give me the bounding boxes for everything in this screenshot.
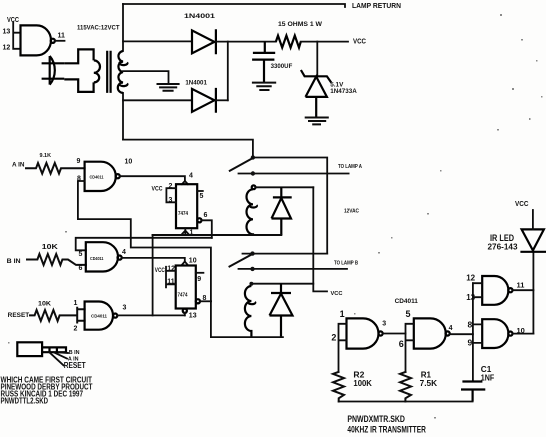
wire FG input bracket vertical [472,283,474,381]
svg-text:VCC: VCC [515,201,529,208]
relay K2 coil [245,286,255,337]
svg-text:7474: 7474 [178,293,188,299]
diode D2 1N4001 [192,88,216,113]
bubble U1A output [116,174,120,178]
svg-text:7.5K: 7.5K [420,378,438,388]
wire U1C output reset line [117,314,184,316]
wire center tap [123,71,169,84]
svg-text:CD4011: CD4011 [90,174,104,179]
svg-text:3: 3 [123,305,127,312]
svg-text:CD4011: CD4011 [91,314,107,319]
bubble U5B output [446,331,450,335]
svg-text:100K: 100K [353,378,372,388]
junction lamp A contact [251,171,255,175]
svg-text:40KHZ IR TRANSMITTER: 40KHZ IR TRANSMITTER [347,425,426,436]
bubble U4 pin8 [196,299,200,303]
led D6 IR LED 276-143 [520,229,546,251]
svg-text:A IN: A IN [12,162,25,169]
svg-text:5: 5 [79,251,83,258]
bubble U2D output [51,39,55,43]
svg-text:10: 10 [189,257,197,264]
svg-text:B IN: B IN [7,258,22,265]
wire U5A out to U5B in [383,333,406,335]
svg-text:12VAC: 12VAC [344,209,359,215]
ground center tap [158,84,179,91]
nand gate U5A [347,318,379,348]
svg-text:4: 4 [189,173,193,180]
wire U3 VCC bracket pins 2,3 [166,188,176,202]
transformer T1 core [107,51,110,93]
wire to lamp B [239,268,348,270]
bubble U1B output [118,256,122,260]
svg-text:10K: 10K [38,300,51,307]
svg-text:5: 5 [200,193,204,200]
nand gate U1B [86,242,118,271]
ic U3 7474 A [176,184,197,228]
pin 4 caret U3 [182,181,188,184]
wire lamp return top line [123,4,345,7]
svg-text:8: 8 [468,320,473,330]
svg-text:10: 10 [125,159,133,166]
diode D4 flyback relay A [272,187,292,235]
wire VCC rail vertical [312,187,314,283]
bubble U5D output [508,332,512,336]
svg-text:6: 6 [204,212,208,219]
junction relay A pole [251,155,255,159]
resistor R4 9.1K [26,163,85,174]
wire LED chain vertical [532,252,534,334]
svg-text:VCC: VCC [331,291,344,297]
svg-text:6: 6 [399,339,404,349]
bubble U3 pin6 [197,218,201,222]
connector J1 body [17,342,42,356]
svg-text:4: 4 [122,249,126,256]
bubble U1C output [113,314,117,318]
pin 1 caret U3 [182,231,188,234]
wire U1B output to U4 pin10 [122,258,185,262]
relay K1 coil [247,189,257,235]
switch K2 blade [230,254,253,267]
nand gate U2D [21,25,52,55]
wire U5C input stubs 12,13 [473,283,482,297]
svg-text:VCC: VCC [152,186,164,192]
nand gate U1C [85,302,113,330]
leader line A IN [54,352,67,358]
wire U1A pin8 feedback [78,181,211,337]
diode D5 flyback relay B [270,284,293,337]
svg-text:LAMP RETURN: LAMP RETURN [352,3,401,10]
wire rectifier junction vertical [227,42,229,101]
wire xmtr bottom rail [339,401,473,403]
resistor R5 10K [27,254,86,265]
svg-text:VCC: VCC [353,38,366,45]
svg-text:RESET: RESET [64,361,86,370]
wire U2D output stub [55,40,65,42]
svg-text:12: 12 [3,45,11,52]
wire secondary left vertical [122,4,124,51]
wire 12VAC to relay A pole [123,140,253,158]
wire U5D output [513,333,534,335]
svg-text:1: 1 [190,230,194,237]
svg-text:15 OHMS 1 W: 15 OHMS 1 W [278,22,322,28]
AC plug P1 [42,56,65,85]
svg-text:CD4011: CD4011 [395,299,419,305]
wire secondary bottom to relay common [122,93,124,140]
wire U1C input bracket [77,308,84,323]
svg-text:115VAC:12VCT: 115VAC:12VCT [77,25,120,32]
wire resistor to VCC [301,41,348,43]
svg-text:11: 11 [517,281,525,290]
wire U5C output [513,289,534,291]
svg-text:13: 13 [3,29,11,36]
capacitor C2 3300UF [252,42,275,83]
wire relay B top [251,284,327,292]
junction relay B pole [250,251,254,255]
relay K1 coil terminal circle [252,185,256,189]
nand gate U1A [85,162,116,191]
wire U5B out to FG bracket [450,333,473,335]
svg-text:2: 2 [331,333,336,343]
pin 10 caret U4 [182,262,188,266]
wire U5B input bracket to R1 [406,324,414,372]
svg-text:276-143: 276-143 [488,241,518,251]
wire reset branch up [152,235,154,315]
wire U4 pin9 stub [196,272,204,274]
ground C2 [253,83,275,90]
svg-text:4: 4 [449,325,453,332]
transformer T1 primary coil [94,60,100,82]
svg-text:9: 9 [197,276,201,283]
wire D1 cathode to regulator [216,41,276,43]
svg-text:11: 11 [58,33,66,40]
svg-text:1: 1 [74,300,78,307]
svg-text:7474: 7474 [178,211,188,217]
wire U4 VCC bracket pins 12,11 [166,267,176,288]
wire U3 pin5 stub [197,190,203,192]
bubble U4 pin13 [183,309,187,313]
svg-text:13: 13 [466,293,475,302]
svg-text:CD4011: CD4011 [90,256,104,261]
leader line B IN [59,351,68,354]
nand gate U5D [482,319,508,348]
svg-text:1N4001: 1N4001 [185,80,207,86]
svg-text:1: 1 [340,309,345,319]
svg-text:12: 12 [167,265,175,272]
svg-text:3: 3 [382,320,386,327]
junction lamp B contact [250,267,254,271]
bubble U5A output [379,331,383,335]
resistor R1 [400,372,411,402]
ic U4 7474 B [176,266,196,309]
wire VCC to gate U2D inputs [13,23,20,49]
svg-text:3300UF: 3300UF [271,64,293,70]
switch K1 blade [230,158,253,171]
svg-text:1NF: 1NF [481,372,495,382]
wire relay A NC line [253,158,327,254]
svg-text:1N4733A: 1N4733A [330,88,357,95]
connector J1 tip [42,347,66,352]
svg-text:9: 9 [468,338,473,348]
wire relay B bottom [211,336,283,338]
wire U4 pin13 to reset line [184,313,186,315]
wire relay B pole line [243,253,328,255]
svg-text:PNWDXMTR.SKD: PNWDXMTR.SKD [347,414,405,425]
wire to lamp A [239,173,349,175]
wire U4 pin8 to vertical [200,300,211,302]
svg-text:VCC: VCC [155,268,166,274]
ground zener [306,118,328,125]
wire relay A top to VCC rail [256,186,314,188]
wire zener branch [316,42,318,77]
junction relay B top [249,282,253,286]
svg-text:13: 13 [189,313,197,320]
resistor R3 15 OHMS 1 W [276,36,301,48]
wire U3 pin6 to gate B pin5 line [202,220,212,238]
svg-text:RESET: RESET [8,312,30,319]
svg-text:B IN: B IN [69,350,80,356]
zener D3 5.1V 1N4733A [301,70,331,118]
wire U5A input bracket to R2 [339,324,347,372]
capacitor C1 [461,382,485,402]
svg-text:2: 2 [74,325,78,332]
svg-text:12: 12 [466,274,475,283]
svg-text:9: 9 [77,158,81,165]
wire U3 pin1 stub [184,228,186,235]
wire bottom tap to diode [123,99,192,101]
leader line RESET [50,352,64,365]
wire U5D input stubs 8,9 [473,324,482,343]
nand gate U5B [414,318,446,348]
svg-text:6: 6 [79,265,83,272]
diode D1 1N4001 [192,29,216,54]
resistor R2 [333,372,344,402]
svg-text:TO LAMP B: TO LAMP B [334,260,358,266]
wire top tap to diode [123,40,192,42]
svg-text:1N4001: 1N4001 [184,14,216,20]
svg-text:TO LAMP A: TO LAMP A [338,164,363,170]
nand gate U5C [482,276,508,305]
wire feedback U3 pin6 to U1B pin5 [76,238,212,251]
svg-text:3: 3 [169,197,173,204]
svg-text:5: 5 [406,309,411,319]
wire U1A output to U3 pin4 [120,176,185,181]
wire VCC to LED [532,210,534,229]
svg-text:10K: 10K [42,244,58,251]
svg-text:2: 2 [169,183,173,190]
resistor R6 10K [30,310,76,321]
transformer T1 secondary coil [118,51,128,93]
svg-text:11: 11 [167,279,175,286]
wire reset line to relay A bottom [153,234,282,236]
bubble U5C output [508,288,512,292]
svg-text:PNWDTTL2.SKD: PNWDTTL2.SKD [1,397,49,406]
wire D2 cathode to junction [216,99,228,101]
svg-text:9.1K: 9.1K [40,153,52,159]
AC cord body [64,49,93,92]
